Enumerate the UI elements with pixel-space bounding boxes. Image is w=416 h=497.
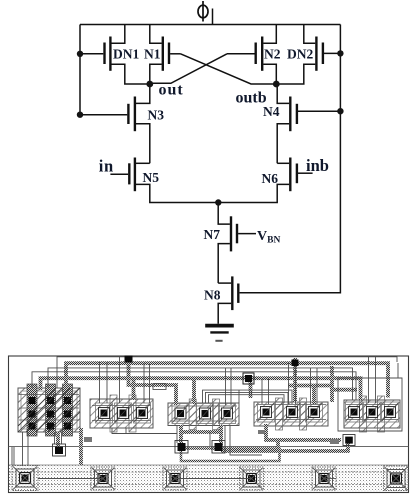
- layout trace cellD c2 edge L: [368, 357, 370, 403]
- layout trace band link 1-2: [38, 478, 103, 480]
- layout bus vert cellA2: [132, 378, 136, 400]
- layout trace viaB edge: [224, 425, 226, 443]
- wire: left rail: [79, 25, 81, 115]
- layout trace cellB c3 edge R: [230, 368, 232, 405]
- layout trace cellA c2 edge: [119, 357, 121, 403]
- node: tail junction: [215, 199, 221, 205]
- wire: right rail: [240, 25, 341, 293]
- transistor DN1: [80, 25, 150, 85]
- wire: top rail: [80, 24, 340, 26]
- layout trace viaA edge: [176, 425, 178, 443]
- layout cell B: [168, 399, 239, 430]
- layout substrate guard ring band: [9, 465, 408, 492]
- layout trace via1 edge L: [54, 432, 56, 444]
- transistor N4: [277, 84, 340, 163]
- svg-text:N4: N4: [263, 104, 280, 119]
- layout bus loop legs A: [179, 432, 183, 446]
- layout trace cellA c3 edge R: [149, 363, 151, 403]
- layout trace cellB to band: [230, 426, 262, 455]
- transistor DN2: [276, 25, 340, 85]
- svg-text:N5: N5: [143, 170, 160, 185]
- layout trace right edge drop: [397, 363, 399, 378]
- layout trace band link 5: [324, 478, 336, 480]
- layout bus vert cellA: [129, 357, 177, 405]
- layout substrate contact 5: [312, 467, 336, 490]
- layout cell D: [344, 396, 400, 432]
- transistor N1: [150, 25, 181, 85]
- layout trace left band edge R: [13, 447, 15, 465]
- layout substrate contact 4: [240, 467, 264, 490]
- layout trace band link 3-4: [175, 478, 252, 480]
- layout bus vias: [125, 356, 299, 385]
- transistor N6: [218, 158, 312, 203]
- layout trace contact1 edge R: [27, 432, 29, 466]
- transistor N8: [218, 276, 238, 323]
- layout bus vert via: [249, 378, 253, 398]
- layout nwell boundary line: [9, 446, 409, 448]
- layout bus lower run: [181, 449, 280, 462]
- layout trace loop drop: [238, 390, 240, 403]
- layout bus right lower: [330, 388, 357, 392]
- svg-text:N7: N7: [204, 227, 221, 242]
- svg-text:DN1: DN1: [113, 47, 139, 62]
- layout bus via-left drop: [56, 432, 60, 447]
- transistor N2: [227, 25, 276, 85]
- node out junction: [146, 81, 153, 88]
- layout trace cellC c1 edge R: [268, 379, 270, 404]
- layout trace cellD guard ring: [338, 378, 402, 431]
- svg-text:N3: N3: [148, 108, 165, 123]
- node: N3 gate junction: [77, 112, 83, 118]
- svg-text:inb: inb: [306, 156, 329, 175]
- clock phi symbol: [198, 1, 208, 22]
- layout trace stub box: [153, 384, 166, 390]
- layout trace cellA foot 2: [125, 428, 127, 434]
- layout substrate contact 1: [12, 466, 38, 491]
- layout bus out loop: [181, 425, 221, 432]
- layout tiny text marks: [84, 430, 339, 444]
- layout boundary: [9, 356, 409, 493]
- layout trace cellC c2 edge L: [288, 363, 290, 404]
- layout trace cellD c2 edge R: [375, 357, 377, 403]
- layout bus right run: [221, 441, 348, 451]
- layout trace gate loop 2: [206, 392, 289, 404]
- svg-text:out: out: [159, 82, 184, 99]
- layout trace cellA c1 edge L: [99, 362, 101, 403]
- svg-text:N8: N8: [204, 288, 221, 303]
- layout trace row3: [32, 372, 356, 400]
- layout bus cellC drop: [266, 424, 341, 440]
- layout cell A: [90, 395, 153, 432]
- layout trace cellA c3 edge L: [143, 363, 145, 403]
- node: DN2 gate junction: [337, 50, 343, 56]
- node outb junction: [273, 81, 280, 88]
- layout cell C: [254, 398, 328, 430]
- layout trace row2: [48, 368, 353, 400]
- layout trace contact1 edge L: [22, 432, 24, 466]
- layout trace gate loop 3: [209, 395, 285, 403]
- layout substrate contact 6: [384, 466, 409, 491]
- transistor N3: [80, 84, 150, 163]
- layout cell big (input pair): [18, 384, 80, 436]
- layout trace cellB mid drop: [209, 432, 211, 446]
- node: DN1 gate junction: [77, 51, 83, 57]
- layout via 3: [212, 441, 225, 454]
- transistor N5: [110, 158, 218, 203]
- layout bus cellC r2 drop: [312, 386, 316, 405]
- layout thin interconnects: [12, 357, 402, 479]
- wire: cross-couple N2 gate to out: [150, 54, 227, 84]
- wire: clock stub: [212, 9, 214, 25]
- wire: cross-couple N1 gate to outb: [181, 54, 277, 84]
- svg-text:DN2: DN2: [287, 47, 313, 62]
- layout bus vert cellC: [293, 358, 297, 402]
- layout trace gate loop 1: [203, 390, 293, 404]
- layout trace cellB c3 edge L: [225, 368, 227, 405]
- node: N4 gate junction: [337, 108, 343, 114]
- ground: [205, 326, 234, 341]
- layout bus vert cellB: [192, 378, 196, 404]
- layout via 2: [175, 441, 188, 454]
- layout via 4: [343, 435, 355, 446]
- layout substrate contact 2: [91, 467, 115, 490]
- layout trace left band edge L: [11, 447, 13, 465]
- layout bus T2: [41, 378, 361, 400]
- layout trace cellC c3 edge L: [310, 368, 312, 404]
- svg-text:N1: N1: [144, 47, 161, 62]
- layout bus cellC top run: [288, 384, 332, 388]
- layout trace cellC c3 edge R: [316, 368, 318, 404]
- layout trace via1 edge R: [61, 432, 63, 444]
- layout trace cellA foot: [112, 428, 177, 434]
- layout bus T1: [66, 363, 388, 397]
- layout bus cellC right drop: [330, 366, 334, 402]
- svg-text:in: in: [99, 157, 114, 176]
- layout bus loop legs B: [219, 432, 223, 446]
- layout via 1: [53, 444, 66, 456]
- layout trace clk top: [57, 357, 397, 388]
- layout substrate contact 3: [163, 467, 187, 490]
- layout bus left band drop: [79, 428, 83, 465]
- transistor N7: [218, 203, 256, 284]
- svg-text:N2: N2: [264, 47, 281, 62]
- layout trace cellA c1 edge R: [106, 362, 108, 403]
- layout metal buses (textured): [41, 357, 389, 465]
- layout trace cellC c1 edge L: [261, 379, 263, 404]
- layout trace cellC c2 edge R: [295, 363, 297, 404]
- svg-text:N6: N6: [262, 171, 279, 186]
